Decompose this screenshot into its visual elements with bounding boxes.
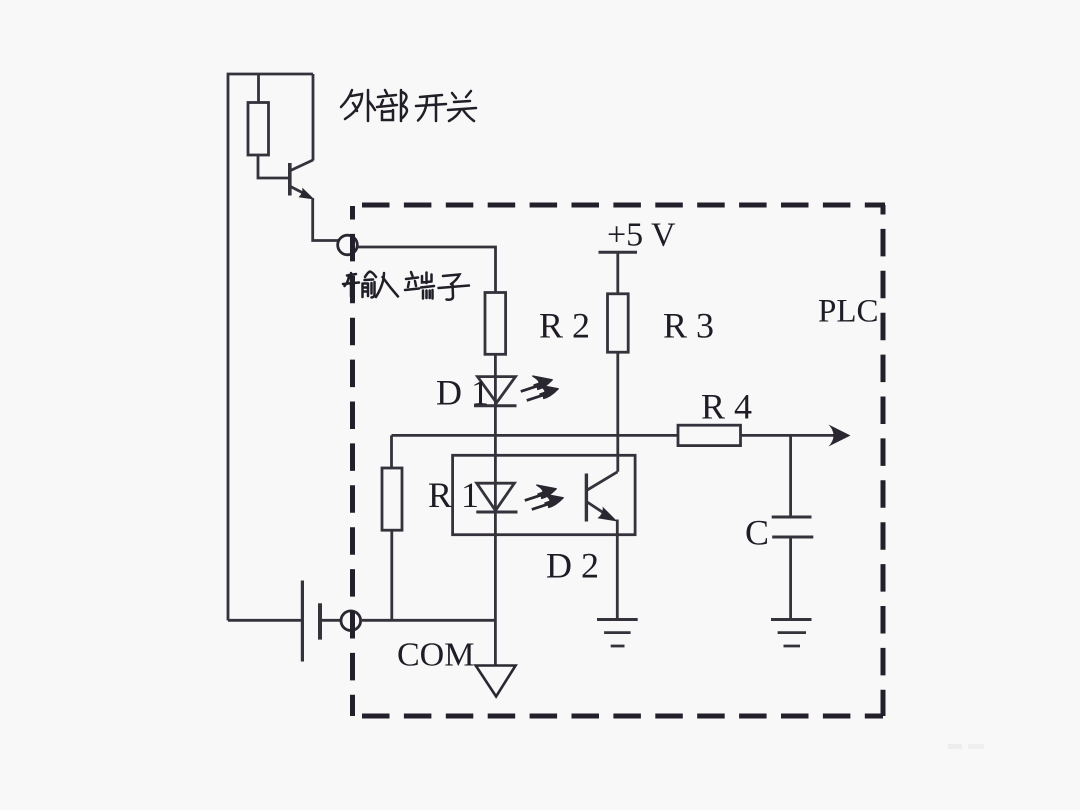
wire: capacitor to ground — [789, 537, 792, 620]
开 — [416, 95, 446, 121]
diode D1 triangle — [478, 377, 516, 403]
capacitor C bottom plate — [772, 536, 813, 539]
ground under D2 — [597, 620, 638, 647]
resistor R1 body — [382, 468, 402, 530]
opto light arrow 1 — [523, 482, 558, 502]
svg-text:D 2: D 2 — [546, 546, 599, 586]
wire: horizontal node line y=435 — [392, 434, 679, 437]
svg-text:R 1: R 1 — [428, 475, 479, 515]
transistor Q1 base bar — [288, 163, 292, 196]
optocoupler D2 box — [453, 455, 635, 534]
phototransistor collector — [586, 472, 617, 491]
svg-text:+5 V: +5 V — [607, 217, 676, 254]
phototransistor emitter with arrow — [586, 502, 617, 522]
wire: emitter down to input terminal — [313, 198, 338, 241]
部 — [377, 90, 407, 121]
输 — [343, 272, 376, 298]
diode D1 cathode bar — [474, 404, 517, 407]
battery negative plate (short) — [318, 603, 322, 639]
PLC dashed box bottom border — [353, 714, 884, 719]
wire: +5V to R3 — [616, 252, 619, 293]
wire: terminal to R2 column — [357, 247, 495, 293]
ground under C — [771, 620, 812, 647]
capacitor C top plate — [772, 516, 812, 519]
wire: bottom wire from left loop to battery — [228, 619, 301, 622]
power +5V supply bar — [599, 251, 638, 254]
svg-text:R 4: R 4 — [701, 387, 752, 427]
wire: R4 node down to capacitor — [789, 435, 792, 517]
resistor R1 top lead — [390, 435, 393, 468]
COM open triangle — [476, 666, 516, 697]
battery positive plate (long) — [301, 581, 304, 662]
wire: battery to COM terminal — [322, 619, 342, 622]
子 — [439, 275, 470, 300]
watermark (faint) — [948, 744, 962, 749]
PLC dashed box top border — [350, 203, 885, 208]
wire: R3 down through node to phototransistor collector — [616, 352, 619, 472]
resistor R4 body — [678, 425, 741, 445]
svg-text:COM: COM — [397, 637, 474, 674]
svg-text:PLC: PLC — [818, 294, 879, 330]
wire: COM rail to D1 column — [361, 619, 496, 622]
node: COM terminal circle (bottom) — [341, 611, 361, 631]
label 输入端子 (input terminal) drawn as paths — [343, 272, 469, 300]
D1 light arrow 2 — [525, 382, 560, 402]
wire: external resistor bottom lead to base — [258, 155, 288, 178]
opto light arrow 2 — [530, 491, 565, 511]
svg-text:D 1: D 1 — [436, 373, 489, 413]
入 — [376, 273, 398, 297]
node: input terminal circle (top) — [338, 235, 358, 255]
resistor R3 body — [608, 294, 629, 352]
optocoupler LED cathode bar — [476, 511, 517, 514]
外 — [341, 90, 375, 121]
resistor R2 body — [485, 293, 506, 355]
wire: R2 to D1 and down through optocoupler to COM triangle — [494, 354, 497, 665]
svg-text:R 2: R 2 — [539, 306, 590, 346]
wire: R4 to output arrow — [741, 434, 835, 437]
svg-text:C: C — [745, 513, 769, 553]
output arrowhead — [829, 425, 851, 447]
PLC dashed box left border — [350, 206, 355, 716]
wire: emitter down to ground — [616, 520, 619, 620]
resistor (external, unlabelled) body — [248, 103, 269, 156]
resistor R1 bottom lead — [390, 530, 393, 620]
wire: external resistor top lead — [257, 74, 260, 103]
wire: collector drop from top wire — [312, 74, 315, 161]
transistor Q1 collector — [291, 160, 314, 171]
PLC dashed box right border — [881, 205, 886, 716]
optocoupler LED triangle — [477, 483, 515, 510]
D1 light arrow 1 — [519, 373, 554, 393]
transistor Q1 emitter with arrow — [291, 187, 315, 200]
svg-text:R 3: R 3 — [663, 306, 714, 346]
端 — [405, 272, 434, 299]
wire: external loop left and top — [228, 74, 313, 621]
phototransistor base bar — [585, 474, 588, 522]
关 — [448, 91, 476, 121]
label 外部开关 (external switch) drawn as paths — [341, 90, 476, 121]
